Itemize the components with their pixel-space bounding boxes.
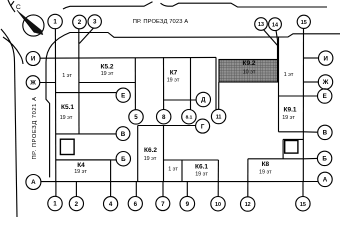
axis Б leader right / K8 top (248, 157, 318, 159)
svg-text:8: 8 (162, 114, 166, 121)
svg-text:Е: Е (121, 92, 125, 99)
svg-text:Е: Е (323, 93, 327, 100)
K6.1 right edge / stem of 10 (217, 160, 219, 197)
svg-text:13: 13 (258, 22, 264, 28)
leader of 14 / K9.2 right edge (276, 30, 278, 59)
svg-text:2: 2 (75, 201, 79, 208)
leader Ж right (304, 81, 320, 83)
road west edge top curve (1, 29, 15, 62)
tick near С (11, 1, 15, 6)
axis circle left А (26, 175, 41, 190)
K5.2 inner horizontal (79, 82, 135, 84)
axis circle mid Д (196, 92, 210, 106)
compass circle (23, 15, 44, 36)
svg-text:19 эт: 19 эт (144, 156, 157, 162)
stem of 11 up to K9.2 corner (218, 82, 220, 109)
svg-text:1: 1 (53, 19, 57, 26)
building K6.2 top / leader to Г (138, 125, 196, 127)
svg-text:3: 3 (93, 19, 97, 26)
svg-text:Ж: Ж (322, 79, 329, 86)
axis circle bottom 12 (241, 197, 255, 211)
stem bottom 7 (162, 181, 164, 196)
compass needle (17, 10, 43, 35)
axis circle top 14 (269, 18, 282, 31)
top-left corner arc (8, 0, 15, 12)
axis А line left (41, 181, 318, 183)
svg-text:ПР. ПРОЕЗД 7023 А: ПР. ПРОЕЗД 7023 А (133, 19, 188, 25)
svg-text:19 эт: 19 эт (282, 115, 295, 121)
axis 2 vertical (78, 29, 80, 134)
K7 divider (190, 57, 192, 110)
substation cell right left line (282, 139, 284, 158)
K5.2 bottom / leader to E (56, 92, 116, 94)
svg-text:15: 15 (300, 202, 306, 208)
svg-text:2: 2 (78, 19, 82, 26)
building K4 top (56, 159, 111, 161)
substation square left (60, 139, 74, 154)
svg-text:1 эт: 1 эт (284, 72, 294, 78)
stem bottom 9 (186, 181, 188, 196)
axis circle right Ж (318, 75, 332, 89)
axis circle mid 8 (157, 110, 171, 124)
axis circle top 13 (255, 18, 268, 31)
K7 inner horizontal / leader to Д (164, 99, 197, 101)
axis circle right В (318, 125, 332, 139)
stem bottom 15 (302, 182, 304, 197)
svg-text:10 эт: 10 эт (243, 69, 256, 75)
svg-text:К5.1: К5.1 (61, 104, 74, 111)
leader of 13 (264, 30, 279, 46)
axis circle mid Е (116, 88, 130, 102)
svg-text:А: А (323, 177, 328, 184)
svg-text:1: 1 (53, 201, 57, 208)
axis circle bottom 4 (104, 197, 118, 211)
K6.1 band top (164, 159, 219, 161)
axis circle mid 8.1 (182, 110, 196, 124)
stem bottom 2 (75, 182, 77, 197)
stem bottom 1 (55, 182, 57, 197)
axis circle top 3 (88, 15, 101, 28)
axis circle bottom 7 (156, 197, 170, 211)
substation cell right top line (283, 138, 303, 140)
axis circle mid Б (116, 152, 130, 166)
block north boundary (46, 33, 340, 63)
axis circle bottom 15 (296, 197, 310, 211)
svg-text:К9.2: К9.2 (242, 60, 255, 67)
road west edge (15, 62, 18, 217)
axis circle bottom 10 (211, 197, 225, 211)
svg-text:Г: Г (201, 123, 205, 130)
svg-text:К6.2: К6.2 (144, 147, 157, 154)
K8 left edge / stem of 12 (247, 159, 249, 197)
block left edge / axis 1 (54, 29, 56, 182)
svg-text:К9.1: К9.1 (283, 107, 296, 114)
svg-text:Б: Б (121, 156, 126, 163)
axis circle mid 11 (211, 109, 225, 123)
K9.1 bottom / leader to В right (279, 131, 318, 133)
axis circle mid Г (196, 119, 210, 133)
K9.1 top / leader to Е right (279, 95, 318, 97)
svg-text:Д: Д (201, 97, 206, 104)
road top south edge left segment (63, 2, 153, 9)
road top south edge right segment (161, 3, 328, 7)
svg-text:К4: К4 (77, 162, 85, 169)
axis circle top 2 (73, 15, 87, 29)
building K6.2 left edge (137, 126, 139, 182)
svg-text:5: 5 (134, 114, 138, 121)
road corner curve near compass (3, 37, 23, 64)
svg-text:19 эт: 19 эт (167, 78, 180, 84)
substation square right (285, 141, 298, 154)
svg-text:6: 6 (134, 201, 138, 208)
building K7 left edge / stem of 8 (163, 57, 165, 109)
svg-text:15: 15 (301, 20, 307, 26)
svg-text:4: 4 (109, 201, 113, 208)
axis circle bottom 1 (48, 196, 62, 210)
axis circle right А (318, 172, 332, 186)
stem bottom 6 (135, 182, 137, 197)
building K9.2 rect (219, 60, 278, 83)
svg-text:В: В (121, 131, 126, 138)
svg-text:К5.2: К5.2 (100, 63, 113, 70)
svg-text:1 эт: 1 эт (62, 73, 72, 79)
axis circle bottom 9 (180, 196, 195, 211)
leader Ж left (40, 82, 56, 84)
axis circle right Б (317, 151, 331, 165)
leader И right (304, 57, 320, 59)
axis circle bottom 2 (69, 197, 83, 211)
svg-text:11: 11 (216, 115, 222, 121)
svg-text:Б: Б (322, 156, 327, 163)
svg-text:В: В (323, 130, 328, 137)
axis circle bottom 6 (128, 197, 142, 211)
building K5.2 right edge / axis down to circle 5 (134, 58, 136, 110)
svg-text:19 эт: 19 эт (74, 169, 87, 175)
column right of K9.2: left edge (278, 37, 280, 132)
svg-text:И: И (323, 55, 328, 62)
svg-text:К8: К8 (262, 161, 270, 168)
svg-text:И: И (31, 56, 36, 63)
divider 1эт/K6.1 (181, 160, 183, 181)
svg-text:С: С (16, 4, 21, 11)
axis circle mid В (116, 127, 130, 141)
svg-text:1 эт: 1 эт (168, 167, 178, 173)
svg-text:Ж: Ж (29, 80, 36, 87)
axis И line / building top (40, 56, 216, 59)
svg-text:ПР. ПРОЕЗД 7021 А: ПР. ПРОЕЗД 7021 А (32, 96, 38, 159)
svg-text:10: 10 (215, 202, 221, 208)
axis circle left И (26, 52, 40, 66)
svg-text:8.1: 8.1 (186, 115, 193, 121)
axis Б leader left (56, 159, 117, 161)
svg-text:14: 14 (272, 22, 278, 28)
block right edge (302, 28, 304, 181)
svg-text:А: А (31, 179, 36, 186)
axis circle left Ж (26, 76, 40, 90)
svg-text:12: 12 (245, 202, 251, 208)
building K6.2 right edge (163, 126, 165, 181)
svg-text:9: 9 (186, 201, 190, 208)
K7 right edge (215, 57, 217, 110)
svg-text:К7: К7 (170, 69, 178, 76)
svg-text:К6.1: К6.1 (195, 163, 208, 170)
axis 3 diagonal leader (79, 28, 93, 44)
svg-text:19 эт: 19 эт (101, 71, 114, 77)
axis circle top 1 (48, 14, 62, 28)
axis circle right Е (318, 89, 332, 103)
axis circle mid 5 (129, 110, 143, 124)
svg-text:19 эт: 19 эт (195, 172, 208, 178)
axis circle top 15 (297, 15, 310, 28)
road east edge (46, 62, 50, 177)
building K4 right edge / stem of 4 (110, 160, 112, 197)
axis circle right И (319, 51, 333, 65)
svg-text:7: 7 (161, 201, 165, 208)
svg-text:19 эт: 19 эт (60, 115, 73, 121)
svg-text:19 эт: 19 эт (259, 170, 272, 176)
axis В line (56, 133, 117, 135)
